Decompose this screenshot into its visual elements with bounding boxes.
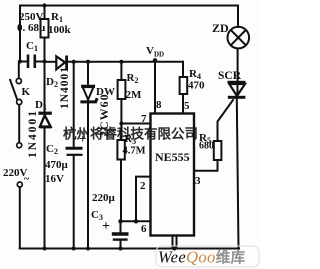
svg-text:470: 470 (188, 80, 205, 92)
capacitor C3 (112, 234, 129, 240)
svg-text:220μ: 220μ (92, 192, 116, 204)
svg-text:杭州将睿科技有限公司: 杭州将睿科技有限公司 (63, 126, 198, 142)
wire R2 R3 chain (120, 62, 122, 221)
svg-text:WeeQoo维库: WeeQoo维库 (158, 248, 246, 267)
junction DW top (86, 60, 90, 64)
junction C3 bottom (119, 247, 123, 251)
wire pin6 stub (121, 220, 151, 222)
junction D1 bottom (43, 247, 47, 251)
resistor R4 (180, 77, 188, 94)
junction DW bottom (86, 247, 90, 251)
resistor R3 (117, 140, 124, 160)
wire left vertical upper (19, 6, 21, 62)
svg-text:NE555: NE555 (155, 150, 190, 164)
wire pin8 vertical (154, 60, 156, 114)
wire node B to D2 (45, 61, 56, 63)
svg-text:~: ~ (24, 174, 30, 185)
wire K to node A (18, 62, 20, 79)
wire pin1 stub (173, 236, 177, 249)
wire DW vertical (87, 62, 89, 249)
svg-text:6: 6 (141, 223, 147, 235)
wire top rail (20, 5, 238, 7)
wire pin2 connector (136, 177, 151, 222)
wire R5 bottom to pin3 (194, 160, 218, 171)
wire lamp to SCR (237, 49, 239, 83)
SCR (228, 81, 246, 99)
wire C3 vertical (120, 221, 122, 248)
svg-text:8: 8 (156, 99, 162, 111)
svg-text:470μ: 470μ (45, 159, 69, 171)
junction Vdd (153, 58, 157, 62)
svg-text:680: 680 (199, 141, 214, 152)
wire D1 vertical top (44, 62, 46, 112)
wire right rail top (237, 6, 239, 28)
junction pin1 bottom (173, 247, 177, 251)
wire lower terminal to bottom rail (19, 187, 21, 249)
junction pin6 node left (118, 219, 122, 223)
svg-text:+: + (102, 219, 110, 234)
watermark weeqoo box (156, 246, 259, 267)
svg-text:2M: 2M (126, 89, 143, 101)
wire R1 branch vertical (44, 6, 46, 62)
svg-text:7: 7 (141, 113, 147, 125)
wire D1 vertical bottom (44, 128, 46, 249)
wire R4 vertical (182, 62, 184, 114)
wire D2 to R4 top (68, 61, 184, 63)
junction pin7 node (119, 122, 123, 126)
capacitor C1 (28, 55, 35, 69)
wire K bottom to terminal (18, 105, 20, 144)
zener DW (80, 86, 97, 102)
wire bottom rail (20, 248, 239, 250)
capacitor C2 (66, 148, 83, 155)
svg-text:K: K (22, 86, 31, 98)
wire mid rail left of C1 (20, 61, 27, 63)
diode D2 (56, 56, 68, 71)
svg-text:SCR: SCR (218, 70, 242, 82)
resistor R2 (118, 80, 126, 99)
svg-text:3: 3 (195, 175, 201, 187)
svg-text:1N4001: 1N4001 (59, 66, 71, 109)
junction R2 top (119, 60, 123, 64)
junction pin6 node right (134, 219, 138, 223)
svg-text:0. 68μ: 0. 68μ (17, 22, 46, 34)
wire SCR gate diagonal (218, 100, 234, 141)
svg-text:100k: 100k (48, 24, 72, 36)
lamp ZD (228, 27, 250, 49)
junction node B (43, 60, 47, 64)
junction C2 top (72, 60, 76, 64)
svg-text:1N4001: 1N4001 (27, 109, 39, 158)
wire pin7 stub (121, 123, 150, 125)
svg-text:ZD: ZD (212, 21, 229, 35)
svg-text:5: 5 (184, 100, 190, 112)
junction R1 top (42, 3, 46, 7)
svg-text:2: 2 (140, 180, 146, 192)
wire mid rail C1 to node B (36, 61, 45, 63)
svg-text:16V: 16V (45, 173, 64, 185)
terminal 220V lower (17, 182, 22, 187)
wire C2 vertical (73, 62, 75, 249)
svg-text:4.7M: 4.7M (123, 146, 146, 157)
resistor R1 (41, 19, 49, 38)
diode D1 (38, 112, 51, 127)
switch K (10, 78, 22, 104)
junction C2 bottom (72, 247, 76, 251)
junction node A (18, 60, 22, 64)
terminal 220V upper (17, 143, 22, 148)
IC NE555 box (151, 114, 195, 236)
wire SCR through and down (237, 83, 239, 249)
resistor R5 (214, 141, 222, 160)
